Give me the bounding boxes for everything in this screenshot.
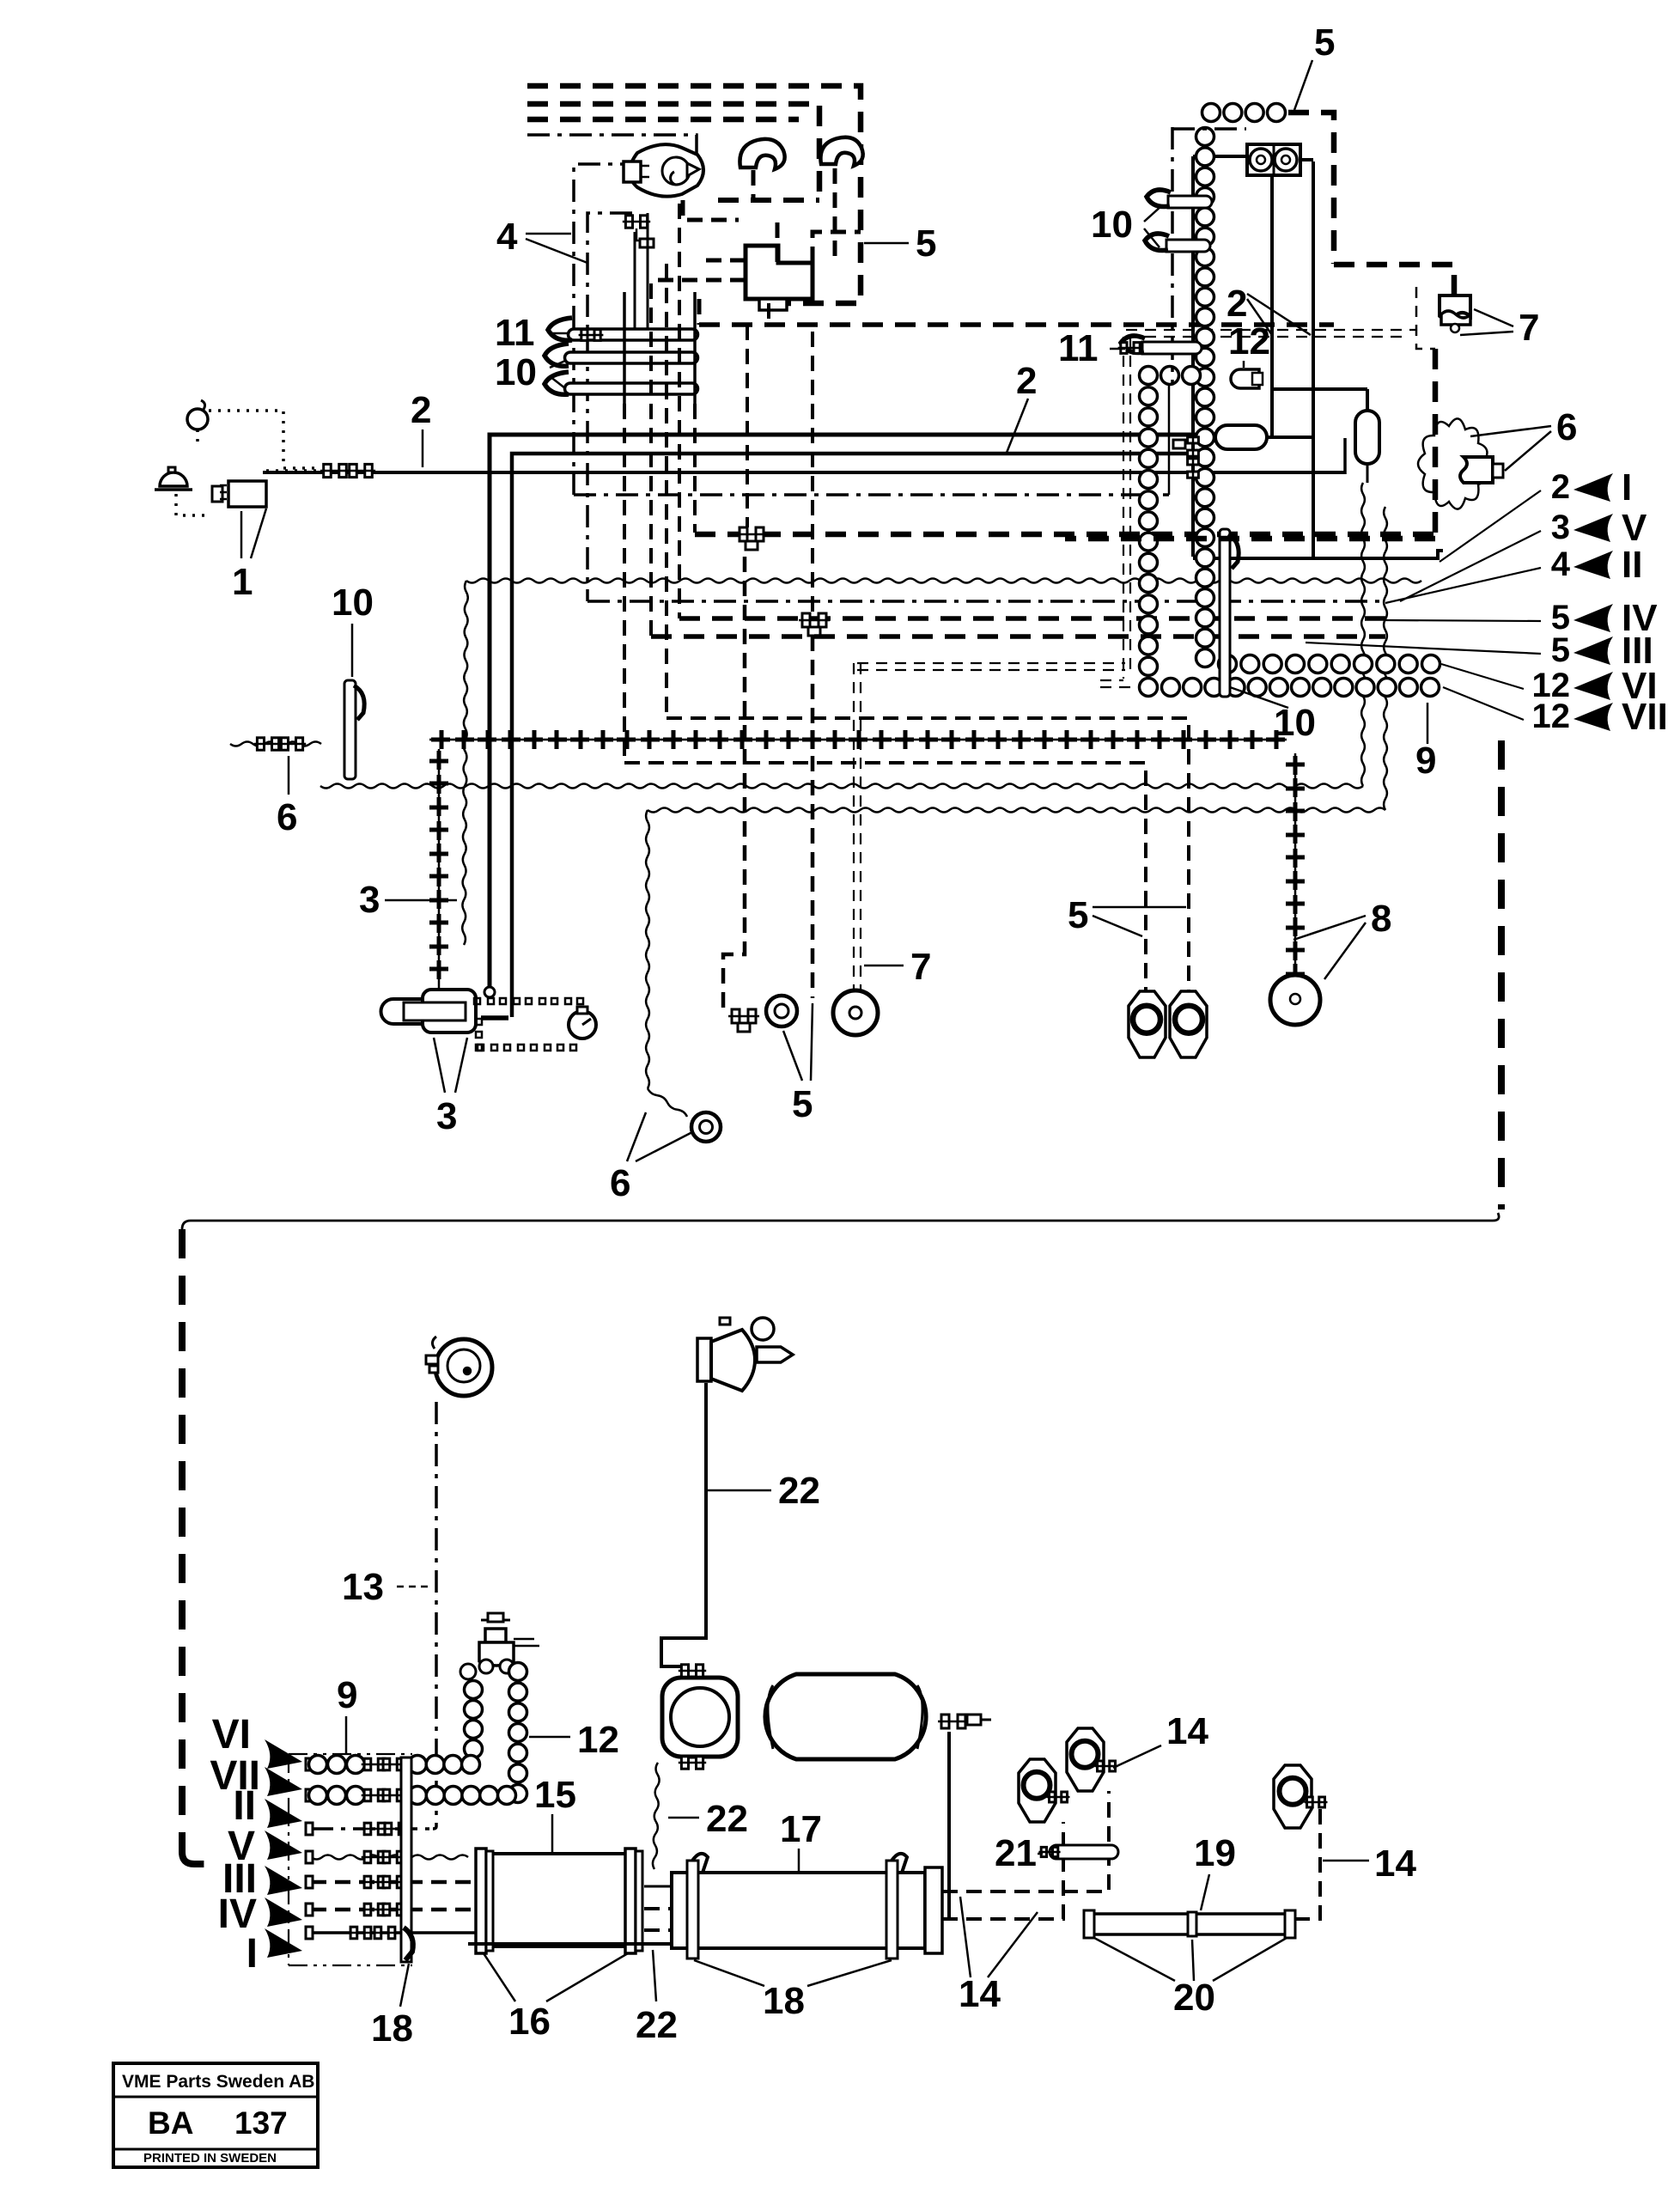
tank 17 clamp a bbox=[687, 1854, 708, 1958]
wavy cloud 6 bbox=[1418, 418, 1487, 509]
label 5 pods bbox=[1068, 894, 1186, 936]
wavy 22 compressor bbox=[653, 1763, 660, 1869]
svg-text:4: 4 bbox=[496, 216, 518, 258]
svg-text:3: 3 bbox=[359, 879, 380, 921]
thin dashed box around 7 bbox=[1416, 287, 1435, 349]
dashed line 5 long horizontal bbox=[699, 322, 1334, 327]
svg-text:12: 12 bbox=[577, 1719, 619, 1761]
svg-text:19: 19 bbox=[1194, 1832, 1236, 1874]
wavy col x1587 bbox=[1361, 483, 1365, 786]
hose coil row1 bbox=[1219, 655, 1440, 673]
brake pod 21a bbox=[1019, 1759, 1070, 1822]
clamp 10d bbox=[1145, 234, 1210, 252]
svg-text:2: 2 bbox=[411, 389, 431, 431]
plus chain line 3 vertical bbox=[429, 749, 448, 988]
label 11 top-left bbox=[495, 312, 569, 354]
label 2 in block bbox=[1227, 283, 1311, 335]
label 10 top-left bbox=[495, 351, 565, 393]
svg-text:17: 17 bbox=[780, 1808, 822, 1850]
heavy dashed corner top right bbox=[1288, 113, 1334, 264]
foot brake valve 3 bbox=[381, 990, 477, 1033]
svg-text:9: 9 bbox=[337, 1674, 357, 1716]
label 22 bottom bbox=[636, 1950, 678, 2046]
brake chamber pod b bbox=[1170, 991, 1207, 1057]
line 13 dash-dot bbox=[433, 1402, 436, 1829]
hose coil row y437 bbox=[1161, 367, 1201, 385]
svg-text:VI: VI bbox=[212, 1712, 251, 1757]
label 18 left bbox=[371, 1964, 413, 2050]
label 13 bbox=[342, 1566, 428, 1608]
pipe unions on line 2 bbox=[320, 464, 375, 477]
test wheel 8 bbox=[1270, 975, 1320, 1025]
air line 2 upper bus bbox=[484, 435, 1215, 997]
dashed line 14 a bbox=[942, 1791, 1109, 1891]
vertical accumulator capsule right bbox=[1272, 389, 1379, 483]
label 4 bbox=[496, 216, 587, 263]
clamp 10 left strip bbox=[344, 680, 364, 779]
svg-text:II: II bbox=[1622, 544, 1642, 586]
svg-text:15: 15 bbox=[534, 1774, 576, 1816]
air manifold bars bbox=[565, 329, 698, 394]
svg-text:I: I bbox=[1622, 466, 1632, 509]
dashed line y836 to pod bbox=[667, 718, 1189, 994]
svg-text:2: 2 bbox=[1016, 360, 1037, 402]
hose coil chain left of dryer bbox=[460, 1664, 483, 1758]
label 10 under block bbox=[1230, 687, 1316, 744]
tee union on y722 bbox=[799, 613, 830, 636]
label 2 over line bbox=[411, 389, 431, 467]
plus chain line 3 horizontal bbox=[429, 730, 1287, 749]
union on block edge bbox=[1173, 435, 1198, 481]
callout 12 arrow VII bbox=[1443, 687, 1668, 738]
grommet 5 bbox=[766, 996, 797, 1026]
plus chain line 8 vertical bbox=[1286, 753, 1305, 988]
svg-text:22: 22 bbox=[778, 1470, 820, 1512]
clamp 11 pipe bbox=[1118, 336, 1202, 354]
svg-text:BA: BA bbox=[148, 2105, 193, 2141]
clamp 10a bbox=[545, 344, 569, 366]
line 4 dash-dot from bundle bbox=[527, 135, 697, 601]
port row VI hoses bbox=[306, 1756, 480, 1774]
svg-text:1: 1 bbox=[232, 561, 253, 603]
label 3 left bbox=[359, 879, 457, 921]
pressure switch 7 bbox=[1440, 295, 1470, 332]
svg-text:9: 9 bbox=[1415, 740, 1436, 782]
accumulator capsule in block bbox=[1215, 425, 1267, 449]
port row I line bbox=[306, 1927, 481, 1939]
svg-text:11: 11 bbox=[495, 312, 535, 354]
callout 4 arrow II bbox=[1385, 544, 1642, 603]
svg-text:3: 3 bbox=[1551, 509, 1570, 546]
wire dash-dot line 4 horizontal to manifold II bbox=[574, 383, 1385, 601]
circle row top bbox=[1202, 104, 1286, 122]
gauge wheel 7 bbox=[833, 990, 878, 1035]
label 22 upper bbox=[708, 1470, 820, 1512]
tee union mid bbox=[728, 1009, 759, 1032]
pipes to manifold bbox=[635, 213, 648, 331]
port IV numeral+arrow bbox=[218, 1891, 302, 1937]
svg-text:16: 16 bbox=[508, 2001, 551, 2043]
svg-text:22: 22 bbox=[636, 2004, 678, 2046]
svg-text:18: 18 bbox=[763, 1980, 805, 2022]
bottom frame line bbox=[468, 1942, 672, 1946]
svg-text:II: II bbox=[233, 1783, 256, 1829]
dotted control wires 1 bbox=[176, 411, 325, 515]
heavy dashed down right side bbox=[1065, 349, 1435, 539]
line 22 from booster bbox=[661, 1383, 706, 1666]
label 11 block bbox=[1058, 327, 1125, 369]
label 3 bottom bbox=[434, 1038, 467, 1137]
heavy dashed line y746 bbox=[651, 634, 1385, 639]
horn 13 bbox=[426, 1337, 492, 1396]
svg-text:2: 2 bbox=[1227, 283, 1247, 325]
brake chamber pod a bbox=[1129, 991, 1166, 1057]
heavy dashed left trunk bbox=[182, 1229, 215, 1864]
svg-text:PRINTED IN SWEDEN: PRINTED IN SWEDEN bbox=[143, 2151, 277, 2166]
heavy dashed right trunk bbox=[1498, 740, 1505, 1209]
wire dashed col bbox=[649, 283, 653, 637]
label 7 mid bbox=[864, 946, 931, 988]
warning bell 1 bbox=[155, 467, 192, 490]
port row II line bbox=[306, 1823, 433, 1835]
hose coil chain right of dryer bbox=[509, 1663, 527, 1803]
label 14 right bbox=[1323, 1843, 1416, 1885]
svg-text:I: I bbox=[247, 1931, 258, 1977]
svg-text:12: 12 bbox=[1228, 320, 1270, 362]
main air line 2 (lowest bus) bbox=[263, 438, 1345, 474]
trailer band line bbox=[182, 1213, 1499, 1229]
svg-text:6: 6 bbox=[610, 1162, 630, 1204]
dotted gauge lines bbox=[474, 998, 583, 1051]
svg-text:2: 2 bbox=[1551, 468, 1570, 506]
port row IV line bbox=[306, 1904, 476, 1916]
label 12 block bbox=[1228, 320, 1270, 368]
thin double dashed line 7 vertical bbox=[854, 663, 861, 1003]
thin double dashed line 7 horizontal bbox=[857, 663, 1125, 670]
line2 capsule link bbox=[1267, 436, 1313, 439]
brake pod 21c bbox=[1274, 1765, 1328, 1828]
brake pod 21b bbox=[1067, 1728, 1118, 1791]
dashed wire to valve 5a bbox=[746, 325, 749, 527]
air dryer governor bbox=[479, 1613, 539, 1673]
label 18 mid bbox=[694, 1960, 892, 2022]
horn nozzle pair 5 bbox=[740, 137, 862, 169]
svg-text:8: 8 bbox=[1371, 898, 1391, 940]
label 1 bbox=[232, 509, 266, 603]
label 5 right of bundle bbox=[864, 222, 936, 265]
svg-text:10: 10 bbox=[332, 582, 374, 624]
svg-text:14: 14 bbox=[1166, 1710, 1208, 1752]
tank fitting right bbox=[938, 1715, 991, 1728]
compressor bbox=[662, 1665, 738, 1769]
callout 5 arrow IV bbox=[1385, 597, 1658, 639]
svg-text:20: 20 bbox=[1173, 1977, 1215, 2019]
thin dashed pair line 7 upper bbox=[1100, 330, 1416, 687]
grommet 6 lower bbox=[691, 1112, 721, 1142]
label 21 bbox=[995, 1832, 1046, 1874]
label 17 bbox=[780, 1808, 822, 1871]
hose coil column main bbox=[1196, 128, 1214, 667]
dashed line y888 to pod bbox=[624, 763, 1146, 994]
label 9 top section bbox=[1415, 703, 1436, 782]
air tank wet bbox=[765, 1674, 926, 1759]
label 19 bbox=[1194, 1832, 1236, 1910]
svg-text:5: 5 bbox=[1068, 894, 1088, 936]
air tank 17 bbox=[672, 1867, 942, 1953]
label 6 bottom bbox=[610, 1112, 692, 1204]
svg-text:5: 5 bbox=[792, 1083, 813, 1125]
port VI numeral+arrow bbox=[212, 1712, 302, 1769]
heavy dashed to component 7 bbox=[1334, 265, 1454, 294]
brake valve outlet bold bbox=[481, 1015, 508, 1020]
valve block outline bbox=[1193, 156, 1443, 558]
svg-text:21: 21 bbox=[995, 1832, 1037, 1874]
label 7 right bbox=[1460, 307, 1539, 349]
svg-text:13: 13 bbox=[342, 1566, 384, 1608]
label 6 left bbox=[277, 756, 297, 838]
svg-text:3: 3 bbox=[436, 1095, 457, 1137]
svg-text:6: 6 bbox=[277, 796, 297, 838]
pressure sensor 6 bbox=[1460, 457, 1503, 483]
svg-text:5: 5 bbox=[1551, 631, 1570, 669]
wavy stub left 6 bbox=[230, 738, 321, 750]
label 6 right bbox=[1470, 406, 1577, 471]
wavy line y671 bbox=[466, 579, 1421, 583]
clamp 10c bbox=[1147, 190, 1212, 208]
svg-text:10: 10 bbox=[1091, 204, 1133, 246]
wire dashed col to line III bbox=[623, 404, 626, 763]
label 14 top bbox=[1113, 1710, 1208, 1768]
wavy line y943 bbox=[648, 808, 1385, 813]
label 14 mid bbox=[959, 1897, 1038, 2015]
dashed wire col x946 down bbox=[811, 332, 814, 998]
label 15 bbox=[534, 1774, 576, 1852]
dashed wire col x867 down bbox=[723, 557, 745, 1011]
junction box 9 dotted frame bbox=[289, 1754, 412, 1965]
pressure gauge small bbox=[569, 1007, 596, 1039]
svg-text:14: 14 bbox=[959, 1973, 1001, 2015]
air tank 15 bbox=[476, 1849, 642, 1953]
tee union on y622 bbox=[736, 527, 767, 550]
svg-text:7: 7 bbox=[1519, 307, 1539, 349]
label 20 bbox=[1094, 1938, 1287, 2019]
wavy col x754 down bbox=[646, 810, 687, 1117]
svg-text:137: 137 bbox=[234, 2105, 288, 2141]
label 10 block bbox=[1091, 204, 1161, 247]
slack link 21 bbox=[1038, 1845, 1118, 1859]
port V numeral+arrow bbox=[228, 1824, 302, 1869]
wavy col x1613 bbox=[1384, 507, 1387, 810]
svg-text:7: 7 bbox=[910, 946, 931, 988]
wavy col x543 bbox=[462, 581, 468, 945]
svg-text:14: 14 bbox=[1374, 1843, 1416, 1885]
wire dashed col3 bbox=[678, 204, 681, 618]
label 22 mid bbox=[668, 1798, 748, 1840]
line from tank down bbox=[947, 1732, 951, 1917]
label 8 bbox=[1293, 898, 1391, 979]
svg-text:10: 10 bbox=[1274, 702, 1316, 744]
wavy line y915 bbox=[320, 784, 1363, 789]
svg-text:4: 4 bbox=[1551, 545, 1571, 583]
tank 17 clamp b bbox=[886, 1854, 907, 1958]
dashed line 14 right bbox=[1292, 1809, 1320, 1919]
label 10 mid-left bbox=[332, 582, 374, 677]
port row III line bbox=[306, 1876, 476, 1888]
label 5 mid bbox=[783, 1003, 813, 1125]
port row V line bbox=[306, 1851, 468, 1863]
air horn motor bbox=[624, 144, 703, 197]
svg-text:5: 5 bbox=[916, 222, 936, 265]
tank links bbox=[644, 1886, 672, 1930]
clamp 11 top-left bbox=[548, 318, 603, 340]
manifold riser pipes bbox=[624, 292, 695, 404]
port VII numeral+arrow bbox=[210, 1753, 302, 1799]
callout 5 arrow III bbox=[1306, 630, 1653, 672]
heavy dashed line (I) y622 bbox=[695, 532, 1435, 538]
svg-text:6: 6 bbox=[1556, 406, 1577, 448]
hose coil column left bbox=[1140, 367, 1158, 697]
svg-text:V: V bbox=[1622, 507, 1647, 549]
callout 2 arrow I bbox=[1440, 466, 1632, 562]
svg-text:11: 11 bbox=[1058, 327, 1099, 369]
title block bbox=[113, 2063, 318, 2167]
hose coil row2 bbox=[1162, 679, 1440, 697]
label 5 top right bbox=[1294, 21, 1335, 110]
label 12 bottom bbox=[529, 1719, 619, 1761]
callout 3 arrow V bbox=[1400, 507, 1647, 601]
connector 12 small bbox=[1231, 369, 1263, 388]
relay valve 1 bbox=[212, 481, 266, 507]
dash-dot top left of block bbox=[1172, 127, 1246, 383]
label 2 left of block bbox=[1007, 360, 1037, 453]
wire dashed col4 bbox=[693, 404, 697, 533]
brake booster 22 bbox=[697, 1318, 793, 1391]
pipe union pair bbox=[623, 216, 654, 247]
svg-text:5: 5 bbox=[1314, 21, 1335, 64]
callout 12 arrow VI bbox=[1441, 664, 1658, 707]
label 16 bbox=[484, 1953, 628, 2043]
port I numeral+arrow bbox=[247, 1928, 302, 1977]
clamp 10 strip right bbox=[1220, 529, 1239, 697]
gauge block 12 top bbox=[1247, 144, 1300, 175]
manifold plate 18 bbox=[401, 1757, 413, 1962]
heavy dashed line y722 bbox=[679, 616, 1385, 621]
control valve block 5 bbox=[746, 246, 813, 310]
wire dashed col2 bbox=[665, 264, 668, 718]
svg-text:18: 18 bbox=[371, 2007, 413, 2050]
svg-text:10: 10 bbox=[495, 351, 537, 393]
air line 2 middle bus bbox=[512, 454, 1194, 1017]
label 9 bottom bbox=[337, 1674, 357, 1754]
switch with ring bbox=[187, 400, 208, 429]
svg-text:12: 12 bbox=[1532, 697, 1571, 735]
clamp 10b bbox=[545, 372, 569, 394]
svg-text:22: 22 bbox=[706, 1798, 748, 1840]
dashed line 14 b bbox=[942, 1822, 1063, 1919]
pneumatic line 5 dashed bundle top bbox=[527, 86, 861, 303]
svg-text:VME Parts Sweden AB: VME Parts Sweden AB bbox=[122, 2072, 314, 2092]
dashed wires at step block bbox=[654, 220, 861, 325]
port III numeral+arrow bbox=[222, 1856, 302, 1902]
port II numeral+arrow bbox=[233, 1783, 302, 1829]
brake cylinder 19 bbox=[1084, 1910, 1295, 1938]
svg-text:VII: VII bbox=[1622, 696, 1668, 738]
port row VII hoses bbox=[306, 1787, 516, 1805]
